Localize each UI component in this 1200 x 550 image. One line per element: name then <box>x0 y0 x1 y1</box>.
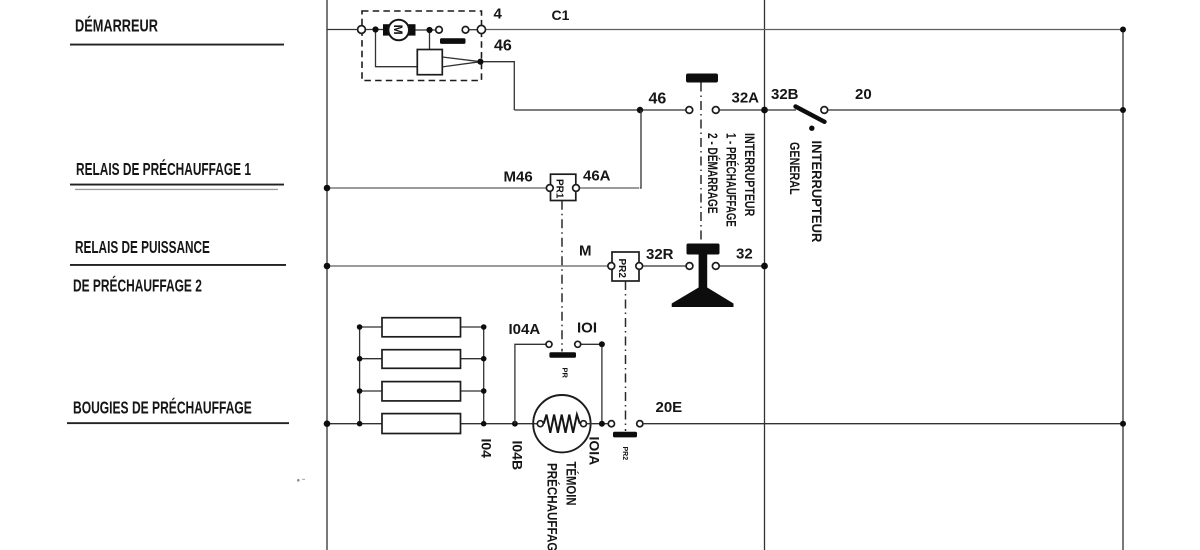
contact circle 20E right <box>637 421 643 427</box>
svg-text:I04A: I04A <box>509 321 541 338</box>
PR1 contact bar <box>549 352 576 358</box>
label INTERRUPTEUR (key) rotated <box>742 133 758 216</box>
glow plug B2 <box>382 350 461 369</box>
bus line 3 (right vertical) <box>1122 30 1124 550</box>
junction dot rail L2 <box>357 356 363 362</box>
PR2 contact bar <box>613 432 637 438</box>
junction dot rail R3 <box>481 388 487 394</box>
starter motor letter M <box>391 25 405 35</box>
PR1 contact tiny label <box>561 368 570 379</box>
label 1 - PRÉCHAUFFAGE rotated <box>723 133 740 227</box>
switch blade drop dot <box>809 126 814 131</box>
junction dot top right <box>1120 27 1126 33</box>
bus line 2 (middle vertical) <box>764 0 766 550</box>
contact circle solenoid left <box>436 27 443 34</box>
solenoid coil box <box>417 50 442 75</box>
svg-text:PR2: PR2 <box>621 447 628 461</box>
svg-text:INTERRUPTEUR: INTERRUPTEUR <box>809 141 825 243</box>
heading BOUGIES DE PRÉCHAUFFAGE <box>73 398 252 418</box>
témoin lamp circle <box>533 395 590 452</box>
wire coil arrow upper <box>442 57 480 62</box>
scan speck <box>297 479 300 482</box>
svg-text:4: 4 <box>494 6 503 23</box>
heading RELAIS DE PRÉCHAUFFAGE 1 <box>76 160 251 180</box>
ignition key bow <box>672 288 734 308</box>
svg-text:20E: 20E <box>656 399 683 416</box>
label GENERAL rotated <box>787 142 803 195</box>
junction dot right row46 <box>1120 107 1126 113</box>
junction dot rail R4 <box>481 421 487 427</box>
terminal circle starter left <box>358 26 366 34</box>
svg-text:20: 20 <box>855 86 872 103</box>
switch blade interrupteur général <box>796 107 825 122</box>
junction dot 46 <box>637 107 643 113</box>
glow plug stub row1 left <box>360 326 382 328</box>
svg-text:46: 46 <box>494 38 512 55</box>
contact circle key lower right <box>712 263 719 270</box>
wire 46 from solenoid <box>480 62 514 110</box>
svg-text:DÉMARREUR: DÉMARREUR <box>75 14 158 36</box>
svg-text:M: M <box>579 243 592 260</box>
svg-text:IOIA: IOIA <box>587 437 603 466</box>
svg-text:RELAIS DE PUISSANCE: RELAIS DE PUISSANCE <box>75 238 210 258</box>
glow plug B3 <box>382 382 461 401</box>
svg-text:2 - DÉMARRAGE: 2 - DÉMARRAGE <box>705 133 722 214</box>
svg-text:M: M <box>391 25 405 35</box>
junction dot bus2 row46 <box>761 107 768 114</box>
label I04 rotated <box>479 439 495 459</box>
lamp resistor zigzag <box>544 415 580 433</box>
label TÉMOIN rotated <box>563 462 579 506</box>
junction dot right bougies <box>1120 421 1126 427</box>
terminal circle PR2 right <box>636 263 643 270</box>
terminal circle PR1 right <box>573 185 580 192</box>
bypass terminal right <box>575 341 581 347</box>
label IOIA rotated <box>587 437 603 466</box>
contact circle key upper right <box>712 107 719 114</box>
scan speck 2 <box>302 479 305 480</box>
heading underline DÉMARREUR <box>70 44 284 46</box>
wire coil tap <box>429 30 431 58</box>
junction dot solenoid output 46 <box>477 59 483 65</box>
junction dot rail L3 <box>357 388 363 394</box>
svg-text:DE PRÉCHAUFFAGE 2: DE PRÉCHAUFFAGE 2 <box>73 276 202 296</box>
solenoid contact bar <box>440 38 466 44</box>
glow plug B1 <box>382 318 461 337</box>
svg-text:32B: 32B <box>771 86 799 103</box>
junction dot 101A <box>599 421 605 427</box>
wire motor return loop to coil <box>376 30 418 67</box>
svg-text:1 - PRÉCHAUFFAGE: 1 - PRÉCHAUFFAGE <box>723 133 740 227</box>
svg-text:TÉMOIN: TÉMOIN <box>563 462 579 506</box>
svg-text:32A: 32A <box>732 90 760 107</box>
wire inside starter box to brush <box>365 29 383 31</box>
heading underline BOUGIES DE PRÉCHAUFFAGE <box>67 422 289 424</box>
junction dot rail R2 <box>481 356 487 362</box>
wire bypass up and over <box>515 344 546 423</box>
ignition key stem <box>699 252 708 289</box>
svg-text:I04B: I04B <box>510 441 526 471</box>
wire 46 row to junction <box>514 109 686 111</box>
relay PR1 <box>551 174 576 200</box>
lamp terminal right <box>581 421 587 427</box>
svg-text:BOUGIES DE PRÉCHAUFFAGE: BOUGIES DE PRÉCHAUFFAGE <box>73 398 252 418</box>
heading DÉMARREUR <box>75 14 158 36</box>
junction dot rail L1 <box>357 324 363 330</box>
svg-text:I04: I04 <box>479 439 495 459</box>
contact circle key lower left <box>686 263 693 270</box>
wire 20 to bus 3 <box>828 109 1124 111</box>
svg-text:RELAIS DE PRÉCHAUFFAGE 1: RELAIS DE PRÉCHAUFFAGE 1 <box>76 160 251 180</box>
junction dot rail L4 <box>357 421 363 427</box>
wire relais préchauffage 1 row <box>327 187 546 189</box>
junction dot bus2 row32 <box>761 263 768 270</box>
svg-text:46A: 46A <box>583 168 611 185</box>
svg-text:IOI: IOI <box>577 320 597 337</box>
starter motor M1 <box>388 20 409 41</box>
wire 32A to bus 2 <box>719 109 796 111</box>
wire between contact circles 4 <box>469 29 477 31</box>
junction dot bypass top right <box>599 341 605 347</box>
glow plug B4 <box>382 414 461 434</box>
contact circle 20E left <box>608 421 614 427</box>
wire motor to solenoid contact <box>416 29 436 31</box>
svg-text:C1: C1 <box>552 7 570 23</box>
svg-text:PR1: PR1 <box>554 179 565 199</box>
bypass terminal left <box>546 341 552 347</box>
glow plug left rail <box>359 327 361 424</box>
junction dot bus1 relais1 <box>324 185 331 192</box>
wire démarreur row from bus 1 <box>327 29 358 31</box>
wire bypass right side <box>581 344 602 423</box>
glow plug stub row2 left <box>360 358 382 360</box>
PR1 actuation dashed <box>561 201 563 352</box>
label PRÉCHAUFFAGE rotated <box>544 463 560 550</box>
terminal circle PR2 left <box>608 263 615 270</box>
glow plug stub row2 right <box>461 358 484 360</box>
starter motor brush right <box>409 24 416 35</box>
starter motor brush left <box>383 24 389 35</box>
contact circle solenoid right <box>462 27 469 34</box>
svg-text:PRÉCHAUFFAGE: PRÉCHAUFFAGE <box>544 463 560 550</box>
label I04B rotated <box>510 441 526 471</box>
lamp terminal left <box>537 421 543 427</box>
svg-text:32: 32 <box>736 246 753 263</box>
relay PR1 rotated label <box>554 179 565 199</box>
wire 46A <box>579 187 639 189</box>
contact circle key upper left <box>686 107 693 114</box>
terminal circle 20 <box>821 107 828 114</box>
junction dot bus1 bougies <box>324 420 331 427</box>
wire lamp to node 101A <box>587 423 609 425</box>
ignition key linkage dashed <box>700 83 702 242</box>
junction dot rail R1 <box>481 324 487 330</box>
lamp bypass tap dot <box>512 421 518 427</box>
terminal circle PR1 left <box>546 185 553 192</box>
svg-text:32R: 32R <box>646 246 674 263</box>
svg-text:INTERRUPTEUR: INTERRUPTEUR <box>742 133 758 216</box>
heading underline RELAIS DE PRÉCHAUFFAGE 1 <box>70 184 284 186</box>
relay PR2 <box>612 252 639 281</box>
starter dashed enclosure <box>362 11 482 81</box>
junction dot motor left <box>372 26 378 32</box>
glow plug right rail <box>483 327 485 424</box>
wire 32 to bus2 <box>719 265 764 267</box>
svg-text:GENERAL: GENERAL <box>787 142 803 195</box>
label INTERRUPTEUR (général) rotated <box>809 141 825 243</box>
wire coil arrow lower <box>442 62 480 67</box>
heading RELAIS DE PUISSANCE <box>75 238 210 258</box>
relay PR2 rotated label <box>616 259 627 279</box>
svg-text:PR2: PR2 <box>616 259 627 279</box>
glow plug stub row3 left <box>360 390 382 392</box>
terminal circle 4 <box>477 25 485 33</box>
bus line 1 (left vertical) <box>326 0 328 550</box>
svg-text:46: 46 <box>649 91 667 108</box>
svg-text:PR: PR <box>561 368 570 379</box>
ignition contact bar upper <box>686 74 718 83</box>
ignition key crossbar <box>687 244 720 255</box>
glow plug stub row3 right <box>461 390 484 392</box>
wire bougies row from bus 1 <box>327 423 537 425</box>
heading DE PRÉCHAUFFAGE 2 <box>73 276 202 296</box>
svg-text:M46: M46 <box>504 169 533 186</box>
junction dot bus1 relais2 <box>324 263 331 270</box>
wire 20E to bus 3 <box>643 423 1123 425</box>
heading underline RELAIS DE PUISSANCE <box>70 264 286 266</box>
wire 32R <box>642 265 686 267</box>
PR2 contact tiny label <box>621 447 628 461</box>
glow plug stub row1 right <box>461 326 484 328</box>
wire C1 to bus 3 <box>486 29 1123 31</box>
PR2 actuation dashed <box>625 281 627 431</box>
junction dot motor right <box>426 27 432 33</box>
wire relais puissance row <box>327 265 608 267</box>
label 2 - DÉMARRAGE rotated <box>705 133 722 214</box>
heading underline ghost (scan artifact) <box>75 189 278 190</box>
